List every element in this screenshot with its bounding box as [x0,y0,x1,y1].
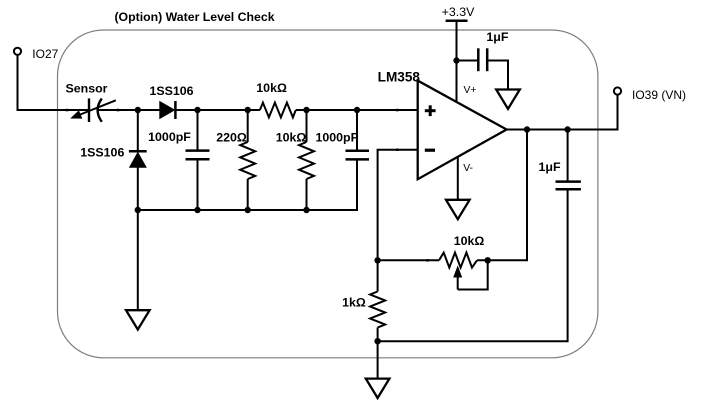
svg-text:10kΩ: 10kΩ [454,234,485,248]
svg-text:IO27: IO27 [32,47,58,61]
node V+ decoupling [453,57,459,63]
svg-text:1SS106: 1SS106 [149,84,193,98]
wire op-amp output [507,95,618,130]
wire V+ pin [456,21,458,102]
svg-text:1000pF: 1000pF [315,130,358,144]
ground (V- pin) [446,200,470,219]
node cap C2 top [354,107,360,113]
svg-text:V+: V+ [464,85,477,96]
svg-text:10kΩ: 10kΩ [256,81,287,95]
op-amp U1 LM358 [378,70,507,180]
svg-text:LM358: LM358 [378,70,421,85]
node R1 220 top [245,107,251,113]
wire pot to R4 [378,259,439,262]
wire op-amp minus input [378,149,418,261]
wire feedback from output [477,130,527,261]
node main wire / D2 branch [135,107,141,113]
resistor R1 220 ohm [216,110,255,210]
wire sensor to diode D1 [98,109,160,111]
node rail D2 [135,207,141,213]
wire V- pin [457,157,459,200]
wire D2 branch upper [137,110,139,151]
svg-text:1kΩ: 1kΩ [342,296,366,310]
wire rail to ground [137,210,139,310]
svg-text:Sensor: Sensor [65,81,107,95]
node R3 10k top [303,107,309,113]
resistor R4 1k ohm [342,260,385,378]
node rail C1 [194,207,200,213]
capacitor C2 1000pF [315,110,369,159]
node output feedback [524,126,530,132]
node pot wiper tie [485,257,491,263]
+3.3V supply [442,5,475,21]
svg-text:IO39 (VN): IO39 (VN) [632,88,686,102]
ground (R4 bottom) [366,379,390,398]
node cap C1 top [194,107,200,113]
node rail R3 [303,207,309,213]
node minus input / R4 [374,257,380,263]
sensor (variable capacitor) [65,81,119,122]
diode D1 1SS106 (horizontal) [149,84,193,119]
svg-text:10kΩ: 10kΩ [276,130,307,144]
ground (V+ decoupling) [496,90,520,109]
ground (input section) [126,310,150,329]
wire D2 anode to ground rail [137,167,139,211]
ground rail wire [138,159,357,210]
terminal IO27 [14,47,59,61]
svg-text:220Ω: 220Ω [216,130,247,144]
capacitor C1 1000pF [148,110,209,210]
diode D2 1SS106 (vertical, cathode up) [80,146,146,168]
svg-text:1SS106: 1SS106 [80,146,124,160]
wire IO27 to sensor [18,55,90,110]
svg-text:V-: V- [463,163,473,174]
resistor R3 10k ohm (vertical) [276,110,314,210]
terminal IO39 (VN) [614,87,686,101]
capacitor C3 1uF (V+ decoupling) [457,30,509,90]
wire R4 to C4 bottom [378,189,568,341]
resistor R2 10k ohm (horizontal) [256,81,296,117]
svg-text:+3.3V: +3.3V [442,5,475,19]
wire D1 to op-amp plus input [175,109,417,112]
node rail R1 [245,207,251,213]
svg-text:1μF: 1μF [486,30,508,44]
svg-text:1μF: 1μF [538,160,560,174]
capacitor C4 1uF (output) [538,130,580,190]
svg-text:(Option) Water Level Check: (Option) Water Level Check [114,10,274,24]
node R4 bottom [374,338,380,344]
potentiometer VR1 10k ohm [439,234,488,289]
svg-text:1000pF: 1000pF [148,130,191,144]
node output C4 [564,126,570,132]
